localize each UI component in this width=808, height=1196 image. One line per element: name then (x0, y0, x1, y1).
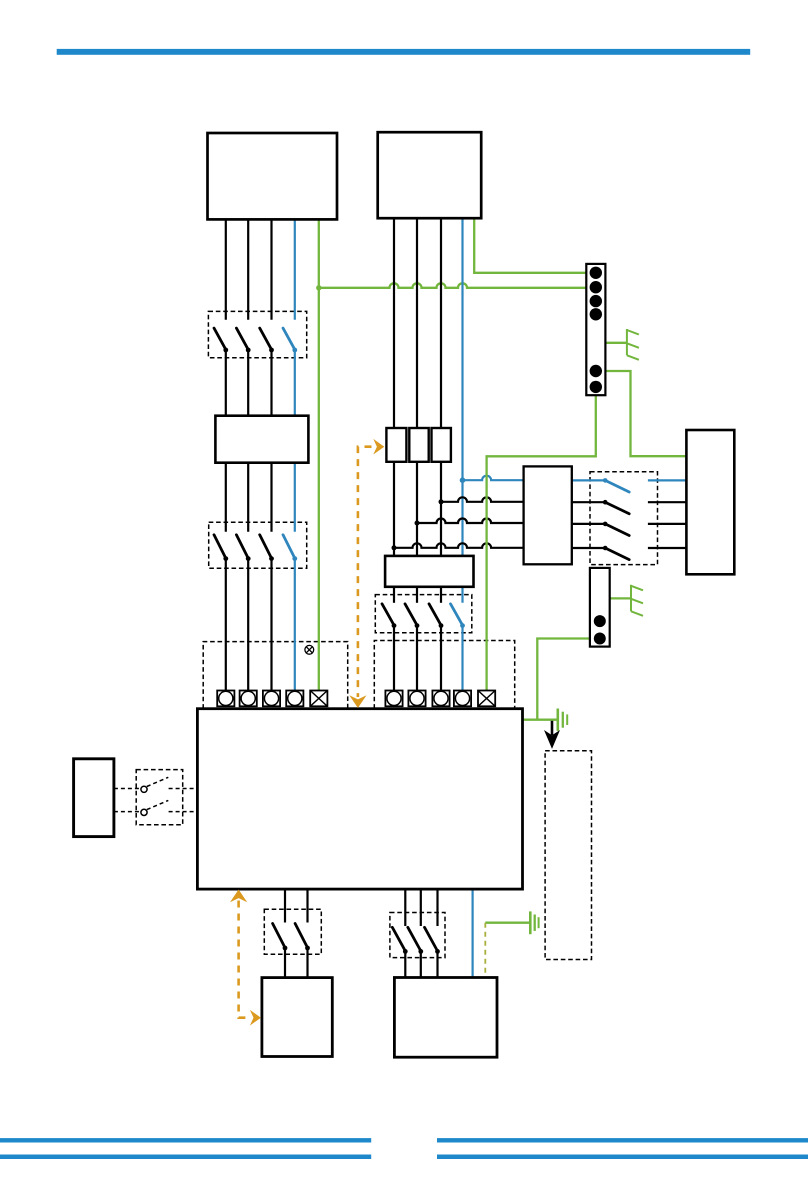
box generator supply (top-right) (378, 132, 482, 218)
ATS switch pole 3 (572, 523, 605, 525)
inverter AC input terminal zone left (203, 642, 348, 709)
wire L3 tap to meter (hops) (441, 497, 524, 502)
signal path fuse/inverter (orange dashed) (358, 447, 372, 697)
wire L1 tap to meter (hops) (394, 543, 524, 548)
wire gen N (blue) (461, 219, 463, 603)
busbar1 terminal 5 (590, 365, 602, 377)
wire load L3 (436, 889, 438, 926)
arrowhead at battery (orange) (250, 1010, 261, 1026)
wire grid L3 (270, 219, 272, 319)
node L1 junction (392, 545, 397, 550)
earth symbol at inverter (green) (558, 709, 567, 731)
box inverter (197, 709, 522, 889)
wire gen L2 (416, 219, 418, 556)
terminal gen L1 (385, 691, 402, 707)
node L3 junction (439, 499, 444, 504)
footer rule left (0, 1138, 371, 1142)
wire grid L1 (225, 219, 227, 319)
earth busbar 1 (586, 264, 605, 395)
wire busbar2 to chassis earth stub (green) (610, 597, 631, 599)
arrowhead at inverter top (orange) (349, 695, 366, 708)
terminal grid L1 (217, 691, 234, 707)
wire busbar to generator PE (green) (605, 371, 686, 456)
terminal gen PE (PE) (478, 691, 495, 707)
battery breaker enclosure (264, 909, 321, 954)
wire PE bus to earth busbar (green, hops) (319, 283, 587, 288)
fuse F1 (386, 428, 406, 462)
wire busbar bottom to inverter PE terminal (green) (487, 395, 596, 690)
footer rule right (437, 1138, 808, 1142)
box generator (right) (686, 430, 734, 574)
breaker CB2 enclosure (grid side lower) (209, 522, 307, 568)
signal path battery/inverter (orange dashed) (239, 901, 249, 1018)
load zone dashed enclosure (545, 751, 591, 960)
fuse F2 (409, 428, 428, 462)
wire load PE solid (green) (485, 922, 529, 924)
dry-contact enclosure (136, 770, 183, 825)
terminal gen N (454, 691, 471, 707)
wire grid PE (green) (318, 219, 320, 690)
load breaker enclosure (390, 913, 445, 958)
wire load L1 (404, 889, 406, 926)
breaker CB3 enclosure (gen side) (375, 595, 472, 633)
wire inverter PE to earth + busbar2 (green) (523, 719, 558, 721)
terminal grid L3 (263, 691, 280, 707)
wire N tap to meter (blue, hop) (463, 476, 524, 481)
inverter AC input terminal zone right (374, 641, 514, 709)
box load (394, 978, 497, 1058)
wire load N (blue) (472, 889, 474, 977)
wire gen L3 (440, 219, 442, 556)
node grid PE junction (316, 285, 321, 290)
node L2 junction (415, 521, 420, 526)
wire busbar to chassis earth stub (green) (605, 342, 627, 344)
terminal grid L2 (240, 691, 257, 707)
wire battery + (284, 889, 286, 922)
lamp symbol (circle-X) (305, 645, 314, 654)
wire grid N (blue) (294, 219, 296, 319)
arrowhead at inverter bottom (orange) (230, 890, 247, 903)
ATS switch pole 2 (572, 501, 605, 503)
earth symbol at load (green) (530, 911, 538, 934)
terminal gen L2 (408, 691, 425, 707)
wire gen PE (green) to earth busbar (474, 219, 586, 273)
box AC protection (gen) (385, 556, 473, 587)
wire grid L2 (247, 219, 249, 319)
busbar1 terminal 6 (590, 381, 602, 393)
chassis earth symbol 1 (green) (627, 329, 639, 360)
header rule (57, 49, 751, 55)
wire load PE dashed (olive) (484, 923, 486, 978)
terminal grid PE (PE) (310, 691, 327, 707)
wire load L2 (420, 889, 422, 926)
arrowhead at fuse (orange) (373, 439, 384, 455)
busbar1 terminal 1 (590, 267, 602, 279)
breaker CB1 enclosure (grid side upper) (208, 311, 306, 357)
ATS switch pole 1 (572, 479, 605, 481)
node N junction (460, 477, 466, 483)
busbar1 terminal 4 (590, 308, 602, 320)
busbar1 terminal 2 (590, 281, 602, 293)
wire battery - (306, 889, 308, 922)
earth busbar 2 (590, 568, 610, 647)
arrow into load zone (black) (551, 721, 554, 735)
busbar2 terminal 2 (594, 633, 606, 645)
ATS switch pole 4 (572, 547, 605, 549)
box energy meter (grid) (215, 416, 308, 463)
terminal grid N (286, 691, 303, 707)
box meter (ATS side) (524, 466, 572, 564)
busbar2 terminal 1 (594, 615, 606, 627)
dry contact switch 1 (dashed) (114, 777, 197, 788)
box grid supply (top-left) (208, 133, 338, 219)
dry contact switch 2 (dashed) (114, 800, 197, 811)
chassis earth symbol 2 (green) (631, 585, 643, 616)
terminal gen L3 (432, 691, 449, 707)
wire L2 tap to meter (hops) (417, 519, 524, 524)
fuse F3 (432, 428, 451, 462)
box BMS (left) (74, 759, 114, 837)
wire gen L1 (393, 219, 395, 556)
busbar1 terminal 3 (590, 295, 602, 307)
box battery (262, 978, 332, 1057)
ATS switch enclosure (590, 472, 658, 565)
